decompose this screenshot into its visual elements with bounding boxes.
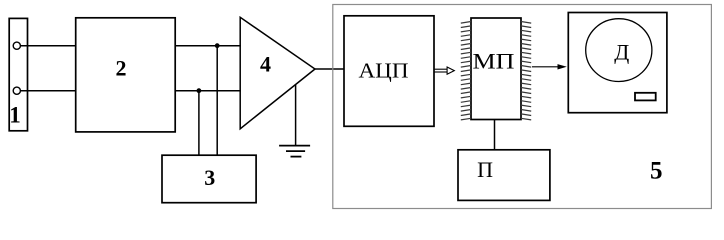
ground wire xyxy=(295,85,297,146)
svg-text:П: П xyxy=(477,157,493,182)
wire block2 to amp (bottom) xyxy=(175,90,241,92)
svg-text:2: 2 xyxy=(116,55,127,80)
wire junction to block 3 xyxy=(216,46,218,156)
МП pins right xyxy=(521,22,531,120)
amplifier 4 xyxy=(240,17,315,129)
microprocessor МП body xyxy=(471,18,521,120)
wire МП to П xyxy=(494,120,496,150)
svg-text:МП: МП xyxy=(473,48,515,73)
wire amp output xyxy=(315,68,344,70)
junction dot top xyxy=(215,43,220,48)
svg-text:3: 3 xyxy=(204,165,215,190)
МП pins left xyxy=(461,22,471,120)
block 3 xyxy=(162,155,256,203)
svg-text:5: 5 xyxy=(650,157,663,184)
arrow МП to Д xyxy=(532,64,567,69)
display block Д xyxy=(568,13,667,113)
controller block П xyxy=(458,150,550,201)
svg-text:Д: Д xyxy=(614,39,629,64)
ground xyxy=(279,146,310,157)
display circle xyxy=(586,19,652,82)
block 2 xyxy=(76,18,176,132)
svg-text:4: 4 xyxy=(260,51,271,76)
display window xyxy=(635,93,656,101)
terminal circle top xyxy=(13,42,20,49)
wire top input xyxy=(20,45,75,47)
wire block2 to amp (top) xyxy=(175,45,241,47)
sensor block 1 xyxy=(9,18,27,130)
junction dot bottom xyxy=(197,88,202,93)
wire junction to block 3 xyxy=(198,91,200,156)
svg-text:АЦП: АЦП xyxy=(359,59,409,83)
svg-text:1: 1 xyxy=(9,103,21,128)
terminal circle bottom xyxy=(13,87,20,94)
wire bottom input xyxy=(20,90,75,92)
enclosure box 5 xyxy=(333,5,712,209)
bus arrow АЦП to МП xyxy=(434,67,455,74)
ADC block АЦП xyxy=(344,16,434,127)
